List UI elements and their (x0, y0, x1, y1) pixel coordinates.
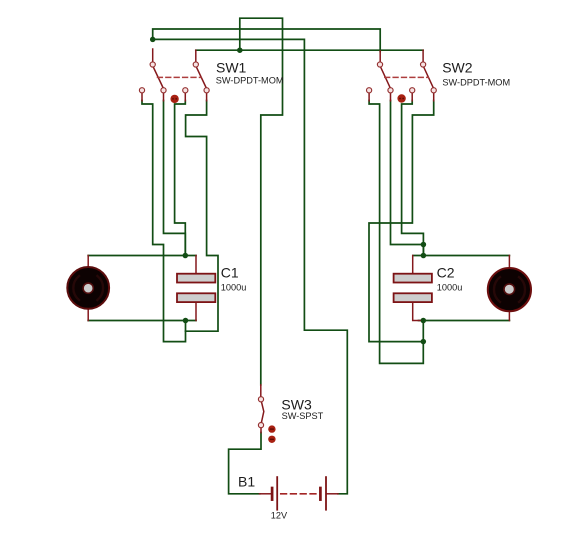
SW2 mechanical link (dashed) (385, 76, 428, 78)
SW2 pole1 lever (381, 67, 391, 88)
wire net B: SW1 pole2 common to SW2 pole2 common (horizontal 3) (196, 49, 423, 51)
M2 top lead (508, 256, 510, 269)
wire SW1 throw2 to motor M1 positive node (164, 101, 186, 256)
B1 cell2 long plate (325, 477, 327, 510)
SW2 actuator button (397, 94, 405, 102)
B1 cell2 short plate (319, 488, 322, 500)
svg-text:SW-DPDT-MOM: SW-DPDT-MOM (442, 77, 510, 87)
svg-text:SW1: SW1 (216, 60, 247, 76)
switch SW1 (SW-DPDT-MOM) (139, 49, 209, 103)
svg-text:SW-DPDT-MOM: SW-DPDT-MOM (216, 75, 284, 85)
svg-text:SW-SPST: SW-SPST (282, 411, 324, 421)
svg-text:1000u: 1000u (221, 283, 247, 293)
M1 bottom lead (87, 309, 89, 321)
SW2 throw pin stubs (369, 93, 434, 101)
wire SW2 throw2 to motor M2 positive node (391, 101, 424, 245)
M2 body (488, 268, 531, 311)
svg-text:C2: C2 (437, 264, 455, 280)
svg-text:B1: B1 (238, 473, 255, 489)
SW3 top terminal circle (258, 397, 263, 402)
C1 top plate (177, 274, 215, 283)
battery B1 12V (260, 477, 339, 510)
SW2 pole2 common terminal circle (421, 62, 426, 67)
junction dot node M2 plus (423.4,255.5) (421, 253, 427, 259)
C1 bottom plate (177, 293, 215, 302)
wire SW2 throw3 to motor M2 positive node (402, 101, 424, 256)
SW2 pole2 common pin stub (422, 50, 424, 62)
SW1 pole2 common terminal circle (193, 62, 198, 67)
SW1 mechanical link (dashed) (158, 76, 201, 78)
svg-text:SW2: SW2 (442, 60, 473, 76)
M1 body (67, 267, 109, 309)
C2 top plate (394, 274, 432, 283)
M2 shaft hub (504, 284, 515, 295)
motor M2 (488, 256, 531, 321)
wire motor M1 top to capacitor C1 top (88, 255, 196, 257)
SW2 throw terminal circles (367, 88, 372, 93)
M2 bottom lead (508, 311, 510, 321)
svg-text:1000u: 1000u (437, 283, 463, 293)
B1 dashed link (281, 493, 317, 495)
SW3 lever (261, 402, 263, 423)
SW3 bottom pin stub (260, 428, 262, 433)
M1 top lead (87, 256, 89, 268)
SW1 pole1 common terminal circle (150, 62, 155, 67)
wire link junction column at C2 (423.4,244.5-255.5 and 320.5-341.6) (422, 245, 424, 342)
svg-text:SW3: SW3 (281, 396, 312, 412)
C2 bottom lead (413, 303, 420, 321)
switch SW3 (SW-SPST) (258, 385, 275, 443)
wire SW3 bottom pin to battery B1 negative (229, 433, 261, 494)
SW3 bottom terminal circle (258, 423, 263, 428)
B1 left lead (260, 493, 271, 495)
C2 bottom plate (394, 293, 432, 302)
svg-text:C1: C1 (221, 264, 239, 280)
motor M1 (67, 256, 109, 321)
SW1 throw terminal circles (139, 88, 144, 93)
wire SW2 throw4 to motor M2 negative node (369, 101, 434, 342)
wire motor M2 bottom to capacitor C2 bottom (419, 320, 510, 322)
wire SW1 throw1 to motor M1 negative node (142, 101, 186, 342)
junction dot at bridge box on horizontal 3 (239.8,50.2) (237, 47, 243, 53)
wire SW2 throw1 to motor M2 negative node (369, 101, 423, 364)
M1 shaft hub (83, 283, 93, 293)
wire SW1 throw3 to motor M1 positive node (175, 101, 186, 256)
SW1 pole2 lever (196, 67, 206, 88)
SW2 pole1 common pin stub (379, 51, 381, 62)
C1 top lead (195, 256, 197, 274)
wire net A: SW1 pole1 common to SW2 pole1 common (top horizontal 1) (153, 29, 381, 52)
SW1 pole1 lever (153, 67, 163, 88)
junction dot at SW1 pole1 common (152.7,39.4) (150, 37, 156, 43)
SW1 pole2 common pin stub (195, 50, 197, 62)
SW3 actuator buttons (268, 425, 275, 432)
SW2 pole2 lever (424, 67, 434, 88)
svg-text:12V: 12V (271, 510, 288, 520)
B1 cell1 short plate (271, 488, 274, 500)
capacitor C2 1000u (394, 256, 432, 321)
junction dot node M2 minus (423.3,320.5) (421, 318, 427, 324)
B1 cell1 long plate (276, 477, 278, 510)
SW2 pole1 common terminal circle (377, 62, 382, 67)
C1 bottom lead (195, 303, 197, 321)
SW3 top pin stub (260, 385, 262, 397)
SW1 actuator button (170, 95, 178, 103)
wire net A: battery positive riser from SW1 common junction (153, 39, 348, 493)
junction dot node M1 minus (185.5,320.5) (183, 318, 189, 324)
capacitor C1 1000u (177, 256, 215, 321)
wire motor M1 bottom to capacitor C1 bottom (88, 320, 196, 322)
switch SW2 (SW-DPDT-MOM) (367, 50, 437, 103)
junction dot node C2 upper (423.4,244.5) (421, 242, 427, 248)
wire motor M2 top to capacitor C2 top (413, 255, 509, 257)
wire net B: bridge box down to SW3 top pin (240, 18, 283, 385)
SW1 throw pin stubs (142, 93, 207, 101)
C2 top lead (412, 256, 414, 274)
junction dot node M1 plus (185.3,255.5) (183, 253, 189, 259)
junction dot node M2 lower (423.3,341.6) (421, 339, 427, 345)
wire SW1 throw4 to motor M1 negative node (186, 101, 219, 332)
SW1 pole1 common pin stub (152, 49, 154, 62)
B1 right lead (327, 493, 338, 495)
